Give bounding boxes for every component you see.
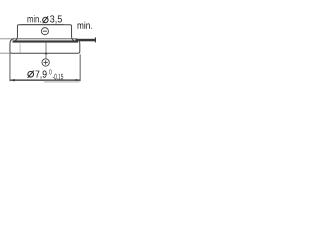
can bottom line extension to left image edge — [0, 52, 11, 54]
text: top label min. — [28, 15, 41, 22]
left arrowhead — [10, 79, 14, 82]
leader arrowhead on bottom face — [45, 52, 48, 54]
dimension line diameter 7,9 — [10, 79, 80, 81]
can (positive case outline) — [10, 39, 80, 53]
right extension line for diameter 7,9 — [79, 54, 81, 81]
left extension line for diameter 7,9 — [9, 53, 11, 81]
dimension line for min 3,5 (merged with cap top) — [21, 23, 64, 25]
plus symbol (circled) below can — [42, 59, 49, 66]
right dimension edge tick (cropped extension) — [95, 37, 96, 42]
text: top value 3,5 — [50, 15, 62, 23]
right arrowhead — [76, 79, 80, 82]
rim extension line (left, lighter) — [0, 38, 14, 40]
faint shadow band under dimension line — [44, 81, 80, 83]
cap (negative terminal top hat outline) — [14, 25, 76, 42]
diameter symbol (bottom dimension) — [28, 71, 34, 78]
gasket / crimp thick line — [13, 40, 79, 42]
minus symbol (circled) on cap — [41, 28, 48, 35]
text: tolerance lower -0,15 — [53, 74, 63, 81]
text: tolerance upper 0 — [49, 70, 51, 75]
centerline / plus leader line — [45, 43, 47, 59]
right dimension band (rim + min dimension line to image edge) — [76, 39, 97, 42]
text: right label min. — [78, 22, 92, 29]
faint inner skirt line (hidden line inside can, left) — [19, 43, 21, 53]
diameter symbol (top dimension) — [43, 16, 48, 23]
text: bottom value 7,9 — [35, 71, 46, 79]
rim line (can top) — [13, 38, 76, 40]
